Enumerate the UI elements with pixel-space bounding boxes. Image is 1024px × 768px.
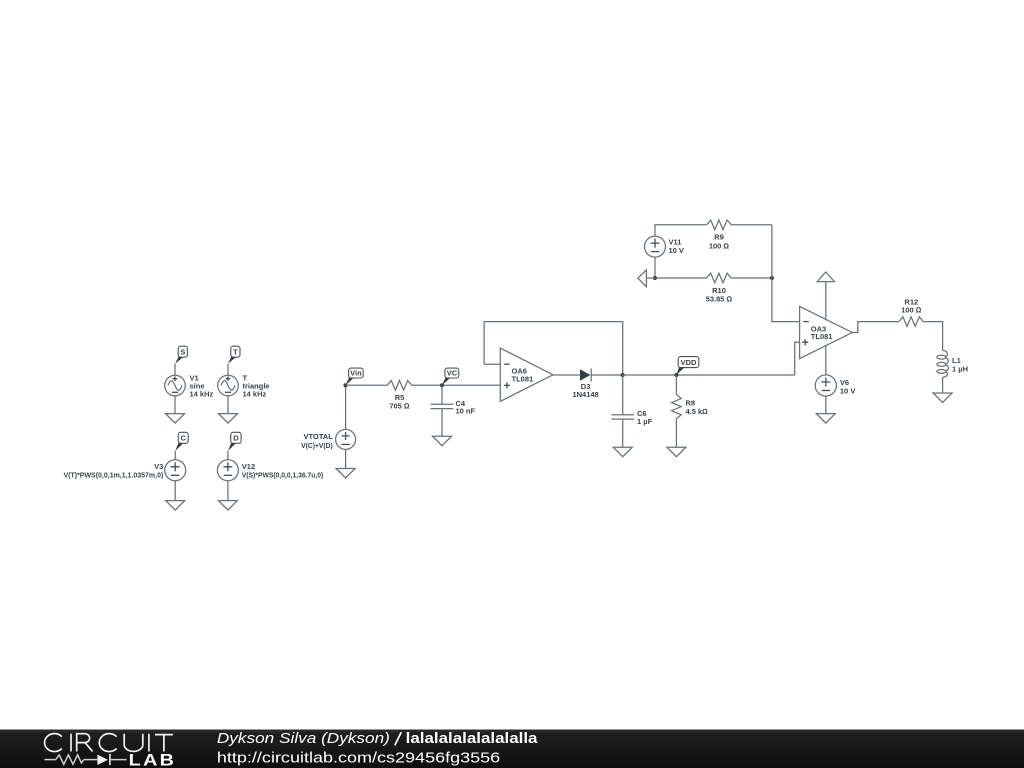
- svg-text:lalalalalalalalalla: lalalalalalalalalla: [406, 730, 539, 747]
- wire D to V12: [227, 451, 229, 460]
- wire V6 to ground: [825, 396, 827, 414]
- junction dot C6 node: [621, 373, 625, 377]
- voltage source V1 (sine 14 kHz): [165, 375, 186, 396]
- junction dot VDD node: [674, 373, 678, 377]
- svg-text:D: D: [233, 434, 239, 443]
- voltage source V6 10 V: [815, 375, 836, 396]
- D3 value labels: [572, 382, 598, 399]
- voltage source VTOTAL V(C)+V(D): [336, 429, 356, 449]
- svg-text:R9: R9: [714, 233, 724, 242]
- voltage source T (triangle 14 kHz): [218, 375, 239, 396]
- svg-text:C: C: [180, 434, 186, 443]
- svg-text:V(S)*PWS(0,0,0,1,36.7u,0): V(S)*PWS(0,0,0,1,36.7u,0): [242, 471, 324, 480]
- node VDD flag: [676, 357, 698, 375]
- ground under T: [219, 414, 238, 424]
- wire right vertical to OA3 - input: [772, 225, 800, 322]
- svg-text:1 µF: 1 µF: [637, 417, 653, 426]
- ground under V3: [166, 501, 185, 511]
- wire VC to C4: [441, 385, 443, 404]
- node VC flag: [442, 368, 459, 385]
- diode D3 1N4148: [580, 368, 591, 381]
- svg-text:10 V: 10 V: [669, 246, 684, 255]
- svg-text:VDD: VDD: [681, 358, 697, 367]
- wire OA3 V- pin to V6: [825, 346, 827, 375]
- svg-text:100 Ω: 100 Ω: [709, 241, 730, 250]
- node T flag: [228, 346, 240, 364]
- wire C6 node to VDD node to OA3: [623, 374, 795, 376]
- wire T to ground: [227, 396, 229, 414]
- voltage source V12 (behavioral): [217, 460, 238, 481]
- ground under C4: [433, 436, 452, 446]
- svg-text:Vin: Vin: [350, 369, 362, 378]
- voltage source V3 (behavioral): [165, 460, 186, 481]
- node D flag: [228, 432, 241, 451]
- wire V1 to ground: [174, 396, 176, 414]
- wire VDD node to R8: [675, 375, 677, 395]
- wire S to V1: [174, 364, 176, 375]
- svg-text:S: S: [180, 347, 185, 356]
- svg-text:http://circuitlab.com/cs29456f: http://circuitlab.com/cs29456fg3556: [217, 750, 500, 767]
- wire node to R10: [655, 277, 707, 279]
- wire V11 to R9: [655, 225, 707, 236]
- power flag pointing up: [817, 272, 834, 282]
- wire Vin to R5: [346, 384, 388, 386]
- svg-text:705 Ω: 705 Ω: [389, 402, 410, 411]
- svg-text:100 Ω: 100 Ω: [901, 306, 922, 315]
- svg-text:V12: V12: [242, 462, 255, 471]
- wire C6 to ground: [622, 419, 624, 447]
- svg-text:14 kHz: 14 kHz: [190, 389, 214, 398]
- svg-text:53.85 Ω: 53.85 Ω: [706, 294, 733, 303]
- resistor R5: [387, 381, 412, 391]
- wire R8 to ground: [675, 419, 677, 447]
- svg-text:TL081: TL081: [512, 374, 534, 383]
- wire VTOTAL to Vin node: [345, 385, 347, 429]
- svg-text:LAB: LAB: [129, 751, 177, 768]
- resistor R9: [707, 220, 732, 230]
- CircuitLab logo CIRCUIT: [45, 734, 173, 752]
- wire V12 to ground: [227, 481, 229, 501]
- wire R12 to L1: [923, 322, 942, 351]
- wire T to source T: [227, 364, 229, 375]
- ground under V6: [816, 414, 835, 424]
- C4 value labels: [456, 399, 476, 416]
- junction dot V11 bottom node: [653, 276, 657, 280]
- svg-text:10 V: 10 V: [840, 386, 855, 395]
- wire OA6 output to D3: [553, 374, 580, 376]
- wire node to left flag: [646, 277, 655, 279]
- svg-text:VC: VC: [447, 369, 458, 378]
- wire R10 to right vertical: [731, 277, 772, 279]
- wire C4 to ground: [441, 409, 443, 437]
- resistor R12: [899, 317, 924, 327]
- wire R9 to right vertical: [731, 224, 772, 226]
- ground under C6: [613, 447, 632, 457]
- wire VTOTAL to ground: [345, 449, 347, 468]
- wire OA6 - input: [484, 363, 500, 365]
- C6 value labels: [637, 409, 653, 426]
- ground under VTOTAL: [336, 469, 355, 479]
- ground under R8: [667, 447, 686, 457]
- footer author line: [217, 730, 538, 747]
- svg-text:14 kHz: 14 kHz: [243, 389, 267, 398]
- ground under L1: [933, 393, 952, 403]
- R10 value labels: [706, 286, 733, 303]
- capacitor C6: [612, 415, 635, 419]
- inductor L1: [937, 350, 948, 377]
- R8 value labels: [686, 398, 709, 415]
- T value labels: [243, 374, 270, 399]
- op-amp OA6 TL081: [500, 348, 553, 401]
- wire R5 to op-amp OA6 + input: [412, 384, 501, 386]
- wire OA3 V+ pin up: [825, 282, 827, 320]
- svg-text:4.5 kΩ: 4.5 kΩ: [686, 407, 709, 416]
- wire OA3 output to R12: [852, 322, 899, 333]
- svg-text:10 nF: 10 nF: [456, 407, 476, 416]
- wire node to C6: [622, 375, 624, 415]
- voltage source V11 10 V: [645, 236, 666, 257]
- junction dot R10 right node: [770, 276, 774, 280]
- wire V11 minus to node: [654, 257, 656, 278]
- node Vin flag: [346, 368, 364, 385]
- node C flag: [175, 432, 188, 451]
- logo resistor-diode squiggle: [44, 754, 126, 765]
- capacitor C4: [431, 404, 454, 408]
- svg-text:VTOTAL: VTOTAL: [303, 432, 333, 441]
- L1 value labels: [952, 356, 968, 373]
- svg-text:V(C)+V(D): V(C)+V(D): [301, 441, 333, 450]
- svg-text:1N4148: 1N4148: [572, 390, 598, 399]
- node S flag: [175, 346, 187, 364]
- wire VDD line to OA3 + input: [795, 342, 800, 375]
- V12 value labels: [242, 462, 324, 480]
- op-amp OA3 TL081: [800, 306, 853, 358]
- junction dot Vin node: [343, 383, 347, 387]
- resistor R10: [707, 273, 732, 283]
- wire L1 to ground: [942, 377, 944, 393]
- junction dot VC node: [440, 383, 444, 387]
- svg-text:V(T)*PWS(0,0,1m,1,1.0357m,0): V(T)*PWS(0,0,1m,1,1.0357m,0): [64, 471, 164, 480]
- R12 value labels: [901, 297, 922, 314]
- V11 value labels: [669, 237, 684, 255]
- V1 value labels: [190, 374, 214, 399]
- wire OA6 feedback loop: [484, 322, 623, 375]
- svg-text:V3: V3: [154, 462, 163, 471]
- V3 value labels: [64, 462, 164, 480]
- svg-text:Dykson Silva (Dykson): Dykson Silva (Dykson): [217, 730, 390, 747]
- V6 value labels: [840, 378, 855, 396]
- wire D3 to C6 node: [591, 374, 622, 376]
- R9 value labels: [709, 233, 730, 251]
- VTOTAL value labels: [301, 432, 333, 450]
- wire C to V3: [174, 451, 176, 460]
- resistor R8: [672, 395, 682, 419]
- svg-text:T: T: [233, 347, 238, 356]
- R5 value labels: [389, 393, 410, 411]
- wire V3 to ground: [174, 481, 176, 501]
- svg-text:TL081: TL081: [811, 332, 833, 341]
- ground under V1: [166, 414, 185, 424]
- power flag pointing left: [638, 270, 647, 287]
- ground under V12: [218, 501, 237, 511]
- svg-text:1 µH: 1 µH: [952, 365, 968, 374]
